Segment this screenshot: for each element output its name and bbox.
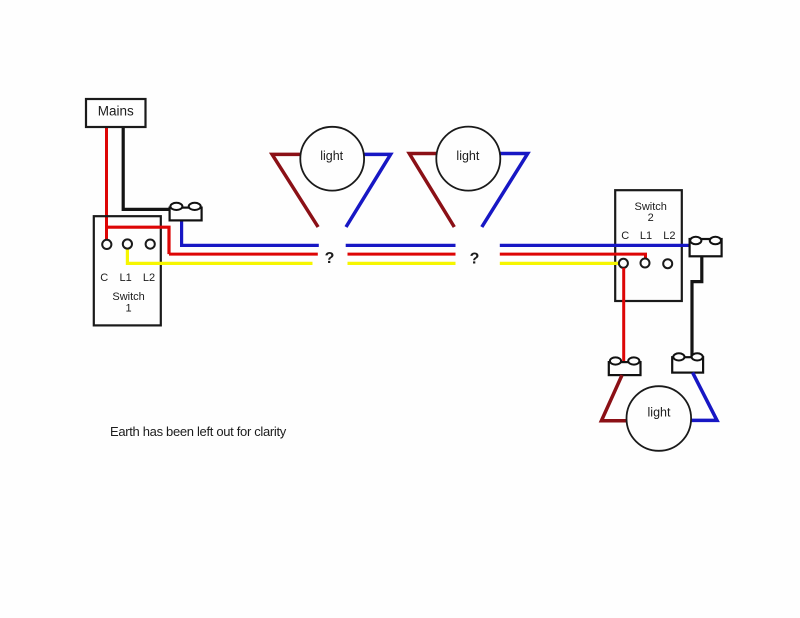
svg-text:?: ? xyxy=(325,250,335,267)
svg-text:light: light xyxy=(320,149,343,163)
wire red branch from live to junction of main red run xyxy=(105,227,169,254)
lamp 1 red feed wire xyxy=(272,154,318,227)
lamp 2 bulb circle xyxy=(436,127,500,191)
svg-text:L1: L1 xyxy=(640,230,652,242)
svg-text:C: C xyxy=(100,272,108,284)
mains box xyxy=(86,99,146,127)
svg-text:Earth has been left out for cl: Earth has been left out for clarity xyxy=(110,424,287,439)
svg-text:L2: L2 xyxy=(663,230,675,242)
wire yellow horizontal run segment 2 xyxy=(348,262,456,265)
lamp 3 red feed wire from junction block J3 xyxy=(601,375,628,421)
junction block J2 right of switch 2 xyxy=(690,237,722,256)
wire blue horizontal run segment 2 xyxy=(346,244,456,247)
svg-text:light: light xyxy=(456,149,479,163)
lamp 2 red feed wire xyxy=(409,154,454,228)
junction block J1 near switch 1 xyxy=(170,203,202,221)
lamp 2 blue switched wire xyxy=(482,154,528,228)
svg-text:Switch: Switch xyxy=(634,201,666,213)
lamp 1 blue switched wire xyxy=(346,154,391,227)
lamp 1 bulb circle xyxy=(300,127,364,191)
wire red live from Mains down to Switch 1 terminal C xyxy=(105,126,108,240)
terminal L1 of switch 2 xyxy=(641,259,650,268)
terminal L1 of switch 1 xyxy=(123,239,132,248)
wire red horizontal run segment 3 into Switch 2 terminal L1 xyxy=(500,254,646,258)
lamp 3 blue wire from junction block J4 xyxy=(690,373,717,421)
wire red horizontal run segment 2 xyxy=(348,253,456,256)
svg-text:?: ? xyxy=(470,251,480,268)
terminal C of switch 1 xyxy=(102,240,111,249)
wire yellow horizontal run segment 3 to Switch 2 terminal C xyxy=(500,262,619,265)
svg-text:2: 2 xyxy=(648,212,654,224)
wire red horizontal run segment 1 xyxy=(169,253,318,256)
svg-text:1: 1 xyxy=(126,303,132,315)
svg-text:L2: L2 xyxy=(143,272,155,284)
svg-text:C: C xyxy=(621,230,629,242)
terminal L2 of switch 2 xyxy=(663,259,672,268)
wire blue from junction block J1 down and right segment 1 xyxy=(182,220,319,245)
svg-text:L1: L1 xyxy=(119,272,131,284)
svg-text:Mains: Mains xyxy=(98,104,134,119)
wire yellow from Switch 1 terminal L1 segment 1 xyxy=(127,248,312,263)
switch 1 box SW1 xyxy=(94,216,161,325)
svg-text:Switch: Switch xyxy=(112,291,144,303)
lamp 3 bulb circle xyxy=(627,386,692,451)
svg-text:light: light xyxy=(648,405,671,419)
junction block J3 below switch 2 xyxy=(609,357,641,375)
terminal C of switch 2 xyxy=(619,259,628,268)
switch 2 box SW2 xyxy=(615,190,682,301)
wire blue horizontal run segment 3 across Switch 2 to junction block J2 xyxy=(500,244,690,247)
wire black from junction block J2 down to junction block J4 xyxy=(692,256,702,357)
terminal L2 of switch 1 xyxy=(146,240,155,249)
wire red from switch 2 terminal C down to junction block J3 xyxy=(622,268,625,362)
wire black neutral from Mains to junction block J1 xyxy=(123,126,170,209)
junction block J4 below junction block J2 xyxy=(672,353,703,372)
